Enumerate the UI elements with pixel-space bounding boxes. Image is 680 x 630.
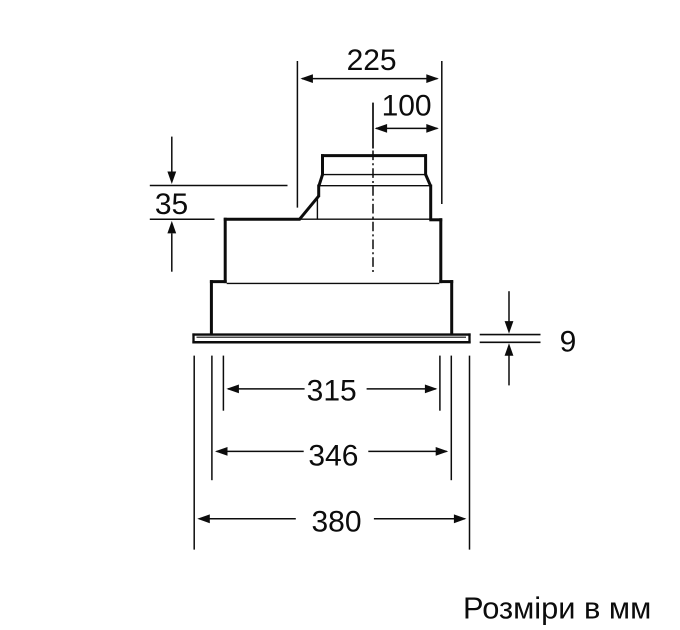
- dim 225 line: [302, 78, 437, 80]
- base flange left cap: [192, 333, 194, 343]
- svg-text:35: 35: [155, 188, 188, 221]
- svg-text:9: 9: [560, 325, 577, 358]
- dim 9 reference line upper: [480, 334, 541, 336]
- dim 35 arrow up head: [167, 221, 176, 234]
- duct left wall upper: [321, 154, 324, 175]
- duct left flare: [319, 174, 323, 186]
- dim 225 extension line left: [296, 61, 298, 208]
- svg-text:225: 225: [347, 44, 397, 77]
- dim 9 arrow up line: [508, 356, 510, 386]
- dim 380 line right: [374, 518, 465, 520]
- dim 315 line left: [228, 388, 305, 390]
- dim 9 arrow down line: [508, 291, 510, 321]
- dim 225 arrow left: [300, 74, 313, 83]
- body top edge middle: [300, 218, 430, 220]
- centerline: [372, 151, 374, 274]
- base flange top edge: [192, 333, 470, 335]
- duct collar seam upper: [323, 174, 426, 176]
- svg-text:315: 315: [307, 374, 357, 407]
- dim 225 extension line right: [441, 61, 443, 204]
- dim 35 reference line lower: [150, 218, 215, 220]
- base flange bottom edge: [192, 341, 470, 344]
- svg-text:100: 100: [382, 89, 432, 122]
- svg-text:346: 346: [308, 439, 358, 472]
- dim 315 line right: [367, 388, 436, 390]
- upper body left wall: [224, 218, 227, 283]
- svg-text:Розміри в мм: Розміри в мм: [463, 590, 651, 625]
- lower box left wall: [210, 280, 213, 335]
- dim 100 arrow right: [426, 124, 439, 133]
- dim 346 arrow left: [215, 447, 228, 456]
- dim 380 arrow left: [197, 514, 210, 523]
- left step edge: [210, 280, 227, 283]
- duct top edge: [321, 154, 427, 157]
- dim 380 extension line right: [469, 356, 471, 550]
- dim 35 reference line upper: [150, 185, 288, 187]
- dim 315 extension line right: [439, 356, 441, 411]
- dim 100 line: [376, 127, 437, 129]
- dim 346 line right: [368, 450, 446, 452]
- duct right wall lower: [429, 185, 432, 220]
- dim 346 extension line right: [450, 356, 452, 481]
- lower box top seam: [227, 282, 440, 284]
- base flange right cap: [468, 333, 470, 343]
- upper body right wall: [439, 218, 442, 283]
- dim 346 line left: [217, 450, 304, 452]
- duct left wall lower: [317, 185, 320, 197]
- right step edge: [439, 280, 453, 283]
- dim 346 arrow right: [436, 447, 449, 456]
- dim 315 arrow left: [226, 385, 239, 394]
- dim 35 arrow up line: [171, 233, 173, 271]
- dim 315 arrow right: [425, 385, 438, 394]
- dim 346 extension line left: [211, 356, 213, 481]
- lower box right wall: [450, 280, 453, 335]
- dim 315 extension line left: [222, 356, 224, 411]
- dim 225 arrow right: [426, 74, 439, 83]
- dim 380 arrow right: [454, 514, 467, 523]
- dim 380 extension line left: [193, 356, 195, 550]
- dim 35 arrow down head: [167, 172, 176, 185]
- duct collar seam lower: [319, 185, 431, 187]
- dim 380 line left: [199, 518, 296, 520]
- body top edge left: [224, 218, 301, 221]
- duct right flare: [425, 174, 430, 186]
- base flange seam: [197, 336, 467, 338]
- dim 35 arrow down line: [171, 137, 173, 173]
- body top edge right: [429, 218, 442, 221]
- duct right wall upper: [424, 154, 427, 175]
- dim 9 arrow up head: [505, 343, 514, 356]
- dim 100 extension line left: [372, 103, 374, 149]
- dim 9 reference line lower: [480, 341, 541, 343]
- dim 9 arrow down head: [505, 321, 514, 334]
- svg-text:380: 380: [311, 505, 361, 538]
- duct left chamfer: [300, 196, 319, 219]
- dim 100 arrow left: [375, 124, 388, 133]
- duct hidden edge: [316, 197, 318, 220]
